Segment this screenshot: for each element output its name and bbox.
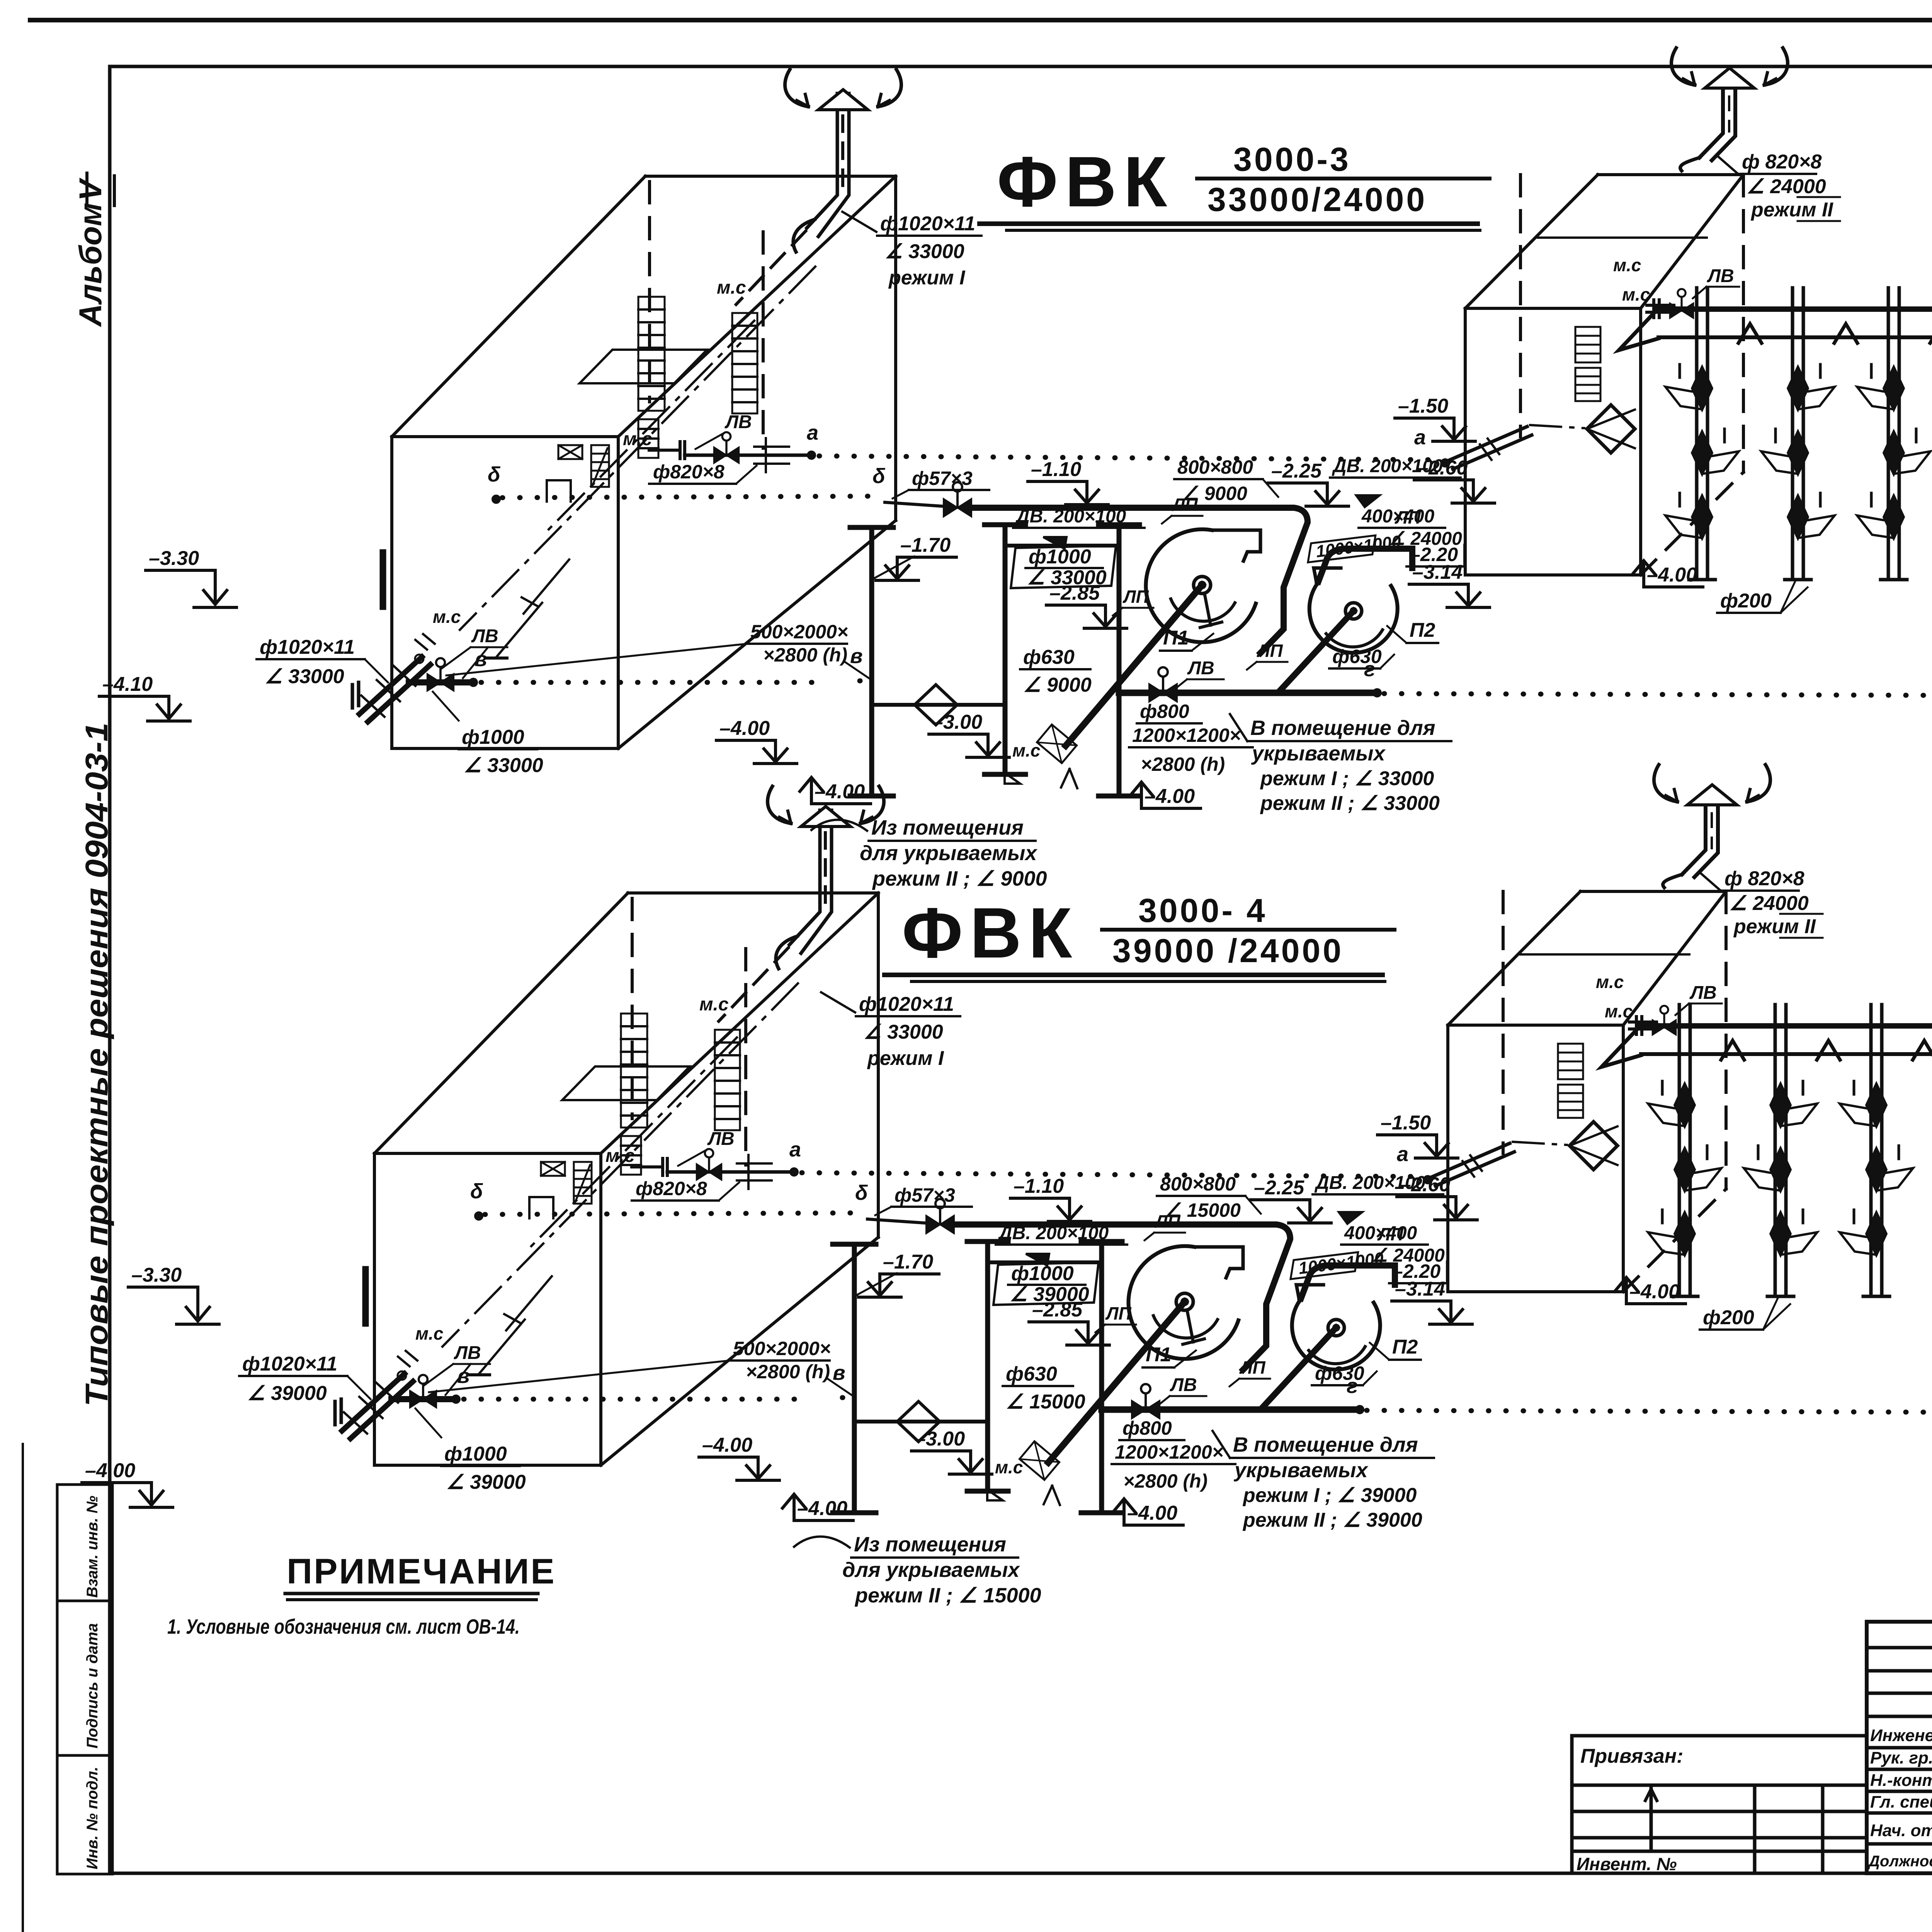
svg-text:Привязан:: Привязан:	[1580, 1745, 1683, 1767]
svg-text:∠ 39000: ∠ 39000	[446, 1471, 526, 1493]
title block	[1867, 1622, 1932, 1873]
svg-text:Подпись и дата: Подпись и дата	[84, 1623, 101, 1748]
svg-text:∠ 33000: ∠ 33000	[885, 240, 964, 263]
svg-text:ф1000: ф1000	[462, 726, 524, 748]
svg-text:3000- 4: 3000- 4	[1138, 892, 1267, 929]
svg-text:ЛВ: ЛВ	[471, 626, 498, 646]
svg-text:3000-3: 3000-3	[1233, 141, 1351, 178]
svg-text:800×800: 800×800	[1177, 456, 1253, 478]
svg-text:33000/24000: 33000/24000	[1207, 181, 1427, 218]
svg-text:Рук. гр.: Рук. гр.	[1870, 1748, 1932, 1767]
lower-left exhaust assembly	[362, 1269, 369, 1323]
svg-text:ЛВ: ЛВ	[454, 1343, 481, 1363]
svg-text:ФВК: ФВК	[997, 142, 1174, 222]
svg-text:Инвент. №: Инвент. №	[1577, 1854, 1677, 1874]
svg-text:ф1020×11: ф1020×11	[242, 1353, 337, 1375]
svg-text:Из помещения: Из помещения	[854, 1533, 1006, 1556]
svg-text:м.с: м.с	[415, 1323, 443, 1344]
svg-text:∠ 33000: ∠ 33000	[864, 1021, 943, 1043]
svg-text:39000 /24000: 39000 /24000	[1112, 932, 1344, 969]
svg-text:ф1020×11: ф1020×11	[260, 636, 355, 658]
svg-text:ФВК: ФВК	[902, 893, 1079, 973]
svg-text:режим II ; ∠ 39000: режим II ; ∠ 39000	[1242, 1509, 1422, 1531]
svg-text:Н.-контр: Н.-контр	[1870, 1771, 1932, 1790]
svg-text:ф1000: ф1000	[444, 1443, 507, 1465]
svg-text:режим I: режим I	[888, 267, 966, 289]
svg-text:режим I ; ∠ 33000: режим I ; ∠ 33000	[1260, 767, 1434, 790]
svg-text:В помещение для: В помещение для	[1250, 716, 1435, 740]
svg-text:режим I ; ∠ 39000: режим I ; ∠ 39000	[1242, 1484, 1417, 1507]
svg-text:укрываемых: укрываемых	[1233, 1459, 1369, 1482]
svg-text:Инженер: Инженер	[1870, 1726, 1932, 1745]
svg-text:∠ 33000: ∠ 33000	[1027, 566, 1107, 589]
svg-text:ф1020×11: ф1020×11	[880, 213, 975, 235]
svg-text:∠ 33000: ∠ 33000	[464, 754, 543, 777]
outer border top	[30, 18, 1932, 22]
ventilation system P1/P2 (lower, FVK 3000-4)	[128, 765, 1932, 1567]
svg-text:∠ 15000: ∠ 15000	[1164, 1199, 1241, 1221]
svg-text:1. Условные обозначения: 1. Условные обозначения см. лист ОВ-14.	[167, 1615, 520, 1638]
svg-text:Взам. инв. №: Взам. инв. №	[84, 1496, 101, 1598]
left stamp boxes	[57, 1485, 112, 1601]
svg-text:∠ 33000: ∠ 33000	[265, 665, 344, 688]
svg-text:м.с: м.с	[433, 607, 461, 627]
svg-text:для укрываемых: для укрываемых	[842, 1558, 1020, 1582]
svg-text:–4.00: –4.00	[85, 1459, 135, 1482]
svg-text:укрываемых: укрываемых	[1251, 742, 1386, 765]
outer border left (partial)	[22, 1444, 24, 1932]
svg-text:∠ 15000: ∠ 15000	[1006, 1391, 1085, 1413]
svg-text:Альбом: Альбом	[73, 203, 108, 327]
svg-text:∠ 39000: ∠ 39000	[1010, 1283, 1089, 1306]
svg-text:Инв. № подл.: Инв. № подл.	[84, 1767, 101, 1869]
svg-text:Из помещения: Из помещения	[871, 816, 1024, 839]
svg-text:∠ 9000: ∠ 9000	[1182, 483, 1247, 504]
svg-text:режим II ; ∠ 15000: режим II ; ∠ 15000	[854, 1584, 1041, 1607]
svg-text:для укрываемых: для укрываемых	[860, 842, 1037, 865]
svg-text:V: V	[73, 177, 108, 201]
svg-text:ПРИМЕЧАНИЕ: ПРИМЕЧАНИЕ	[287, 1552, 556, 1591]
svg-text:–4.10: –4.10	[102, 673, 153, 696]
svg-text:режим I: режим I	[867, 1047, 944, 1070]
svg-text:Нач. отд.: Нач. отд.	[1870, 1821, 1932, 1840]
svg-text:800×800: 800×800	[1160, 1173, 1236, 1195]
svg-text:режим II ; ∠ 9000: режим II ; ∠ 9000	[872, 867, 1047, 890]
svg-text:∠ 39000: ∠ 39000	[247, 1382, 327, 1405]
svg-text:∠ 9000: ∠ 9000	[1023, 674, 1092, 696]
svg-text:ф1020×11: ф1020×11	[859, 993, 954, 1015]
ventilation system P1/P2 (upper, FVK 3000-3)	[146, 48, 1932, 850]
svg-text:Должность: Должность	[1867, 1853, 1932, 1870]
svg-text:режим II ; ∠ 33000: режим II ; ∠ 33000	[1260, 792, 1440, 815]
svg-text:В помещение для: В помещение для	[1233, 1433, 1418, 1456]
lower-left exhaust assembly	[380, 553, 386, 607]
svg-text:Типовые проектные решения 0: Типовые проектные решения 0904-03-1	[79, 723, 114, 1406]
svg-text:Гл. спец.: Гл. спец.	[1870, 1793, 1932, 1811]
